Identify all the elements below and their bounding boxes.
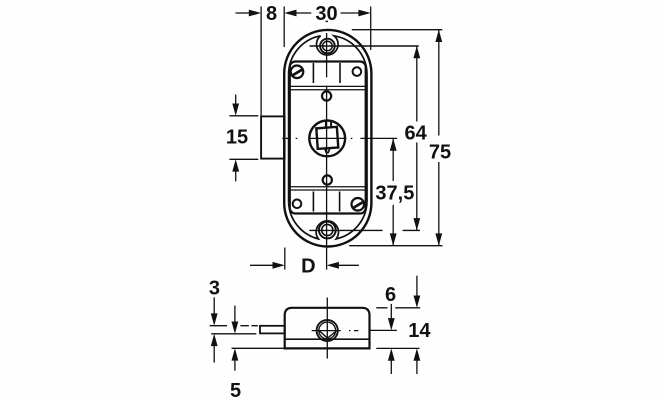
dim 14: top arrow xyxy=(416,276,418,296)
top strip divider left xyxy=(312,63,314,83)
svg-text:75: 75 xyxy=(429,142,451,164)
triangle mark in boss xyxy=(320,331,337,338)
dim D: left extension line xyxy=(284,248,286,270)
lock case rectangle xyxy=(290,62,366,214)
latch bolt (front view) xyxy=(261,116,285,158)
dim 75: dimension line with arrows xyxy=(438,30,440,136)
svg-text:37,5: 37,5 xyxy=(375,182,414,204)
svg-text:5: 5 xyxy=(230,380,241,400)
dim 3: top arrow xyxy=(213,297,215,314)
dim 15: top arrow xyxy=(235,95,237,104)
mounting plate line (side view) xyxy=(285,338,370,340)
dim 15: bottom arrow xyxy=(235,171,237,181)
spindle boss circle (side view) xyxy=(317,320,338,341)
dim 6: mid extension line xyxy=(370,329,397,331)
svg-text:14: 14 xyxy=(408,320,431,342)
dim 5: bottom arrow xyxy=(234,360,236,371)
dim 6: top arrow xyxy=(390,304,392,319)
small hole above spindle xyxy=(322,91,331,100)
dim 8: left extension line xyxy=(260,7,262,117)
dim 8/30 shared extension line xyxy=(283,7,285,48)
case screw bottom-right (slotted) xyxy=(352,198,365,211)
dim 6: bottom arrow xyxy=(390,360,392,374)
dim 75: top extension line xyxy=(352,29,443,31)
body (side view) xyxy=(285,308,370,349)
dim 6/14: top extension line xyxy=(376,307,420,309)
dim 15: bottom extension line xyxy=(229,158,258,160)
svg-text:64: 64 xyxy=(404,122,427,144)
dim 8: left arrow xyxy=(236,12,251,14)
dim D: right arrow xyxy=(339,264,359,266)
vertical centerline (side view) xyxy=(326,298,328,359)
dim D: left arrow xyxy=(250,264,273,266)
dim 3: bottom extension line xyxy=(211,333,256,335)
dim 3: top extension segments xyxy=(210,325,258,327)
bottom strip divider right xyxy=(339,192,341,212)
inner cover top outline with cutout around top screw xyxy=(289,36,367,75)
case screw top-left (slotted) xyxy=(291,66,304,79)
spindle hole circle xyxy=(309,120,345,156)
horizontal centerline front view xyxy=(282,137,397,139)
inner cover outline right side xyxy=(366,74,368,202)
latch bolt (side view) xyxy=(260,326,285,334)
bottom screw slot / extension line xyxy=(309,229,382,231)
bottom extension line (75 / 37,5) xyxy=(349,245,442,247)
horizontal centerline (side view) xyxy=(312,330,359,332)
vertical centerline front view xyxy=(326,33,328,270)
svg-text:3: 3 xyxy=(209,278,220,300)
bottom strip double line xyxy=(290,186,366,188)
spindle square xyxy=(316,127,338,149)
case hole bottom-left xyxy=(293,200,302,209)
bottom strip divider left xyxy=(312,192,314,212)
dim 30: right arrow xyxy=(341,12,360,14)
svg-text:15: 15 xyxy=(226,127,248,149)
dim 37,5: dimension line with arrows xyxy=(392,138,394,181)
top strip divider right xyxy=(339,63,341,83)
spindle top notch bars xyxy=(325,121,327,128)
dim 64: dimension line with arrows xyxy=(416,46,418,122)
dim 6/14: bottom extension line xyxy=(376,347,419,349)
top mounting screw xyxy=(320,39,335,54)
outer plate (rounded obround body, front view) xyxy=(284,30,371,247)
svg-text:30: 30 xyxy=(315,3,337,25)
inner cover outline left side xyxy=(288,74,290,202)
spindle bottom notch xyxy=(325,149,330,153)
vertical centerline dot (top) xyxy=(326,20,328,22)
dim 30: left arrow (shared at 8) xyxy=(296,12,312,14)
dim 14: bottom arrow xyxy=(416,360,418,374)
svg-text:D: D xyxy=(301,255,315,277)
top strip double line xyxy=(290,85,366,87)
dim 15: top extension line xyxy=(229,115,258,117)
svg-text:8: 8 xyxy=(266,3,277,25)
inner cover bottom outline with cutout around bottom screw xyxy=(289,202,367,239)
small hole below spindle xyxy=(323,175,332,184)
dim 3: bottom arrow xyxy=(213,346,215,363)
top screw slot / 64 extension line xyxy=(310,45,419,47)
svg-text:6: 6 xyxy=(385,284,396,306)
bottom mounting screw xyxy=(319,222,336,239)
dim 5: top arrow xyxy=(234,306,236,322)
dim 30: right extension line xyxy=(370,7,372,51)
case hole top-right xyxy=(353,67,362,76)
dim 5: extension line (body bottom, left) xyxy=(232,347,285,349)
